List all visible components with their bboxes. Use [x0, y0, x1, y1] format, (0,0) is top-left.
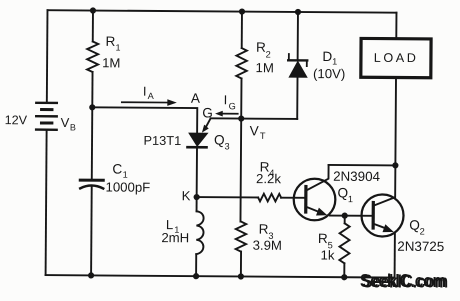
node Q2 base / R5	[342, 213, 348, 219]
node top R1	[90, 7, 96, 13]
zener diode D1 10V	[288, 12, 308, 119]
svg-text:I: I	[224, 92, 228, 107]
wire R4 to Q1 base	[281, 197, 305, 199]
resistor R5 1k	[339, 216, 349, 278]
svg-text:3.9M: 3.9M	[253, 238, 282, 253]
svg-text:2.2k: 2.2k	[256, 171, 281, 186]
transistor Q2 2N3725 circle	[361, 194, 403, 236]
node bottom L1	[193, 273, 199, 279]
resistor R1 1M	[87, 10, 99, 107]
resistor R2 1M	[236, 12, 247, 119]
svg-text:A: A	[148, 91, 155, 101]
svg-text:B: B	[70, 122, 76, 132]
svg-text:1: 1	[332, 57, 337, 67]
PUT Q3 gate lead with arrowhead	[202, 118, 211, 132]
node bottom R3	[238, 273, 244, 279]
wire VT node down to R3	[239, 119, 242, 222]
node top R2	[239, 8, 245, 14]
svg-text:1k: 1k	[320, 248, 334, 263]
transistor Q1 emitter with arrow	[306, 207, 327, 216]
svg-text:V: V	[250, 123, 259, 138]
svg-text:C: C	[112, 161, 122, 176]
svg-text:R: R	[259, 222, 269, 237]
svg-text:1: 1	[348, 194, 353, 204]
node VT junction	[238, 115, 244, 121]
capacitor C1 1000pF	[80, 107, 104, 275]
svg-text:Q: Q	[337, 185, 348, 200]
node bottom R5	[341, 274, 347, 280]
transistor Q1 collector	[306, 165, 328, 191]
svg-text:1M: 1M	[256, 60, 274, 75]
wire Q1 collector bus to right branch	[329, 164, 396, 166]
svg-text:G: G	[229, 101, 236, 111]
wire left branch upper (battery top lead)	[46, 10, 49, 101]
svg-text:Q: Q	[409, 218, 420, 233]
wire anode node to A corner	[92, 107, 197, 133]
svg-text:1: 1	[123, 170, 128, 180]
node A-wire left	[89, 104, 95, 110]
node collector bus	[392, 162, 398, 168]
svg-text:D: D	[322, 49, 332, 64]
resistor R4 2.2k	[258, 194, 281, 202]
svg-text:A: A	[191, 91, 201, 106]
current arrow IA	[122, 99, 177, 106]
wire D1 anode to node VT	[241, 118, 297, 120]
svg-text:2N3725: 2N3725	[397, 239, 444, 254]
svg-text:SeekIC.com: SeekIC.com	[362, 271, 448, 292]
svg-text:G: G	[202, 105, 213, 120]
svg-text:12V: 12V	[5, 113, 28, 127]
svg-text:Q: Q	[214, 132, 225, 147]
wire Q1 emitter to Q2 base	[330, 215, 373, 217]
svg-text:I: I	[143, 84, 147, 99]
wire node K bus	[197, 196, 258, 198]
wire gate to node VT	[211, 117, 242, 119]
svg-text:R: R	[106, 34, 116, 49]
svg-text:R: R	[256, 40, 266, 55]
wire cathode to node K	[196, 149, 198, 197]
svg-text:T: T	[260, 131, 266, 141]
svg-text:2: 2	[266, 49, 271, 59]
wire top bus	[47, 10, 396, 12]
svg-text:1M: 1M	[102, 55, 120, 70]
svg-text:K: K	[182, 188, 191, 203]
svg-text:2mH: 2mH	[161, 230, 189, 245]
wire bottom bus	[46, 275, 395, 277]
battery VB 12V	[36, 103, 57, 130]
svg-text:1000pF: 1000pF	[105, 180, 150, 195]
transistor Q2 base bar	[372, 203, 375, 228]
PUT Q3 P13T1 (anode triangle)	[189, 133, 207, 146]
LOAD block	[360, 12, 431, 165]
node top D1	[295, 9, 301, 15]
watermark SeekIC.com	[360, 270, 448, 292]
svg-text:3: 3	[224, 141, 229, 151]
svg-text:P13T1: P13T1	[143, 133, 181, 148]
svg-text:(10V): (10V)	[313, 66, 345, 81]
transistor Q2 collector	[374, 165, 395, 205]
wire left branch lower (battery bottom lead)	[46, 130, 47, 275]
svg-text:R: R	[318, 231, 328, 246]
transistor Q1 base bar	[304, 187, 307, 212]
node K	[194, 194, 200, 200]
svg-text:V: V	[61, 115, 70, 130]
svg-text:2N3904: 2N3904	[333, 169, 381, 184]
svg-text:1: 1	[115, 42, 120, 52]
svg-text:2: 2	[420, 227, 425, 237]
node bottom C1	[88, 272, 94, 278]
svg-text:LOAD: LOAD	[374, 51, 419, 65]
inductor L1 2mH	[196, 197, 204, 276]
PUT Q3 cathode bar	[188, 146, 207, 149]
resistor R3 3.9M	[235, 222, 246, 277]
current arrow IG	[215, 111, 238, 117]
transistor Q2 emitter with arrow	[373, 224, 395, 278]
transistor Q1 2N3904 circle	[294, 179, 336, 221]
